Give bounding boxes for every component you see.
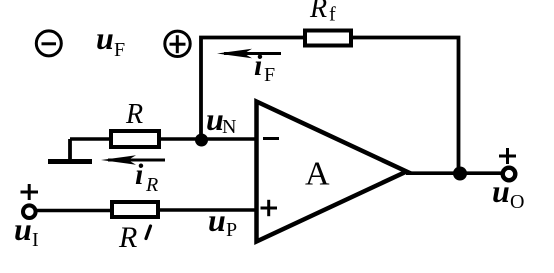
svg-text:i: i xyxy=(254,49,263,82)
wire: terminal u_I to resistor R' xyxy=(37,209,111,213)
node N junction dot xyxy=(195,134,208,147)
ground xyxy=(48,139,92,162)
svg-text:u: u xyxy=(208,202,226,238)
svg-text:I: I xyxy=(32,229,39,251)
label u_O xyxy=(492,173,524,213)
current arrow i_R xyxy=(101,155,165,164)
svg-text:P: P xyxy=(226,219,237,241)
svg-text:R: R xyxy=(118,221,137,254)
label i_F xyxy=(254,49,275,86)
svg-text:F: F xyxy=(114,39,125,61)
wire: Rf right to top-right corner then down to output node xyxy=(351,38,459,175)
svg-text:u: u xyxy=(96,20,114,56)
polarity sign plus of u_F xyxy=(165,31,190,56)
svg-text:u: u xyxy=(14,211,32,247)
resistor Rf xyxy=(305,31,351,46)
wire: ground stem to resistor R xyxy=(70,137,109,141)
polarity + at u_I xyxy=(21,184,39,200)
wire: node N to inverting input xyxy=(201,137,256,141)
label Rf xyxy=(309,0,336,26)
op-amp A triangle xyxy=(257,102,407,242)
label u_F xyxy=(96,20,125,61)
svg-text:F: F xyxy=(264,64,275,86)
svg-text:u: u xyxy=(492,173,510,209)
resistor R' xyxy=(112,202,158,217)
wire: op-amp output to terminal u_O xyxy=(406,171,502,175)
svg-text:O: O xyxy=(510,191,524,213)
label u_N xyxy=(206,101,236,138)
svg-text:R: R xyxy=(145,174,158,196)
op-amp inverting input marker minus xyxy=(263,137,279,140)
label i_R xyxy=(135,158,158,196)
wire feedback: from node N up and right to Rf xyxy=(201,38,303,142)
wire: resistor R to node N xyxy=(159,137,201,141)
label u_I xyxy=(14,211,39,251)
polarity + at u_O xyxy=(499,148,516,164)
polarity sign minus of u_F xyxy=(36,31,61,56)
svg-text:R: R xyxy=(125,99,143,130)
terminal u_I open circle xyxy=(23,205,36,218)
svg-text:R: R xyxy=(309,0,327,24)
svg-text:f: f xyxy=(329,4,336,26)
svg-text:i: i xyxy=(135,158,144,191)
wire: resistor R' to non-inverting input xyxy=(158,208,256,212)
op-amp non-inverting input marker plus xyxy=(261,200,278,216)
svg-text:N: N xyxy=(222,116,236,138)
terminal u_O open circle xyxy=(503,168,516,181)
svg-text:A: A xyxy=(305,156,330,193)
resistor R xyxy=(111,131,159,147)
node: output junction dot xyxy=(453,167,467,181)
label u_P xyxy=(208,202,237,241)
current arrow i_F xyxy=(217,49,281,58)
